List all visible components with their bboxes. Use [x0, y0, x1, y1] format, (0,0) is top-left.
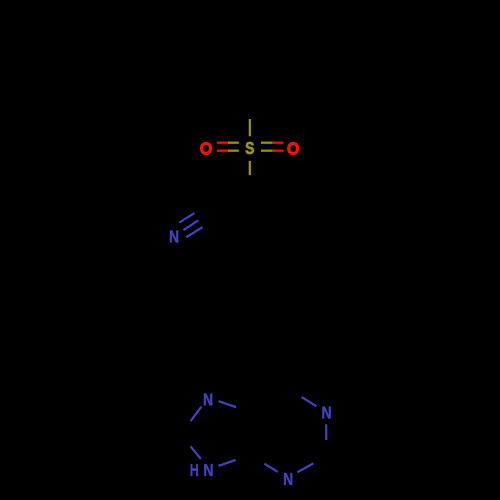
svg-text:N: N: [203, 389, 213, 409]
svg-text:N: N: [203, 460, 213, 480]
svg-text:N: N: [283, 469, 293, 489]
svg-text:O: O: [287, 138, 300, 158]
svg-text:H: H: [190, 460, 199, 480]
svg-text:S: S: [245, 138, 254, 158]
svg-text:N: N: [169, 226, 179, 246]
svg-text:O: O: [200, 138, 213, 158]
svg-text:N: N: [321, 403, 331, 423]
